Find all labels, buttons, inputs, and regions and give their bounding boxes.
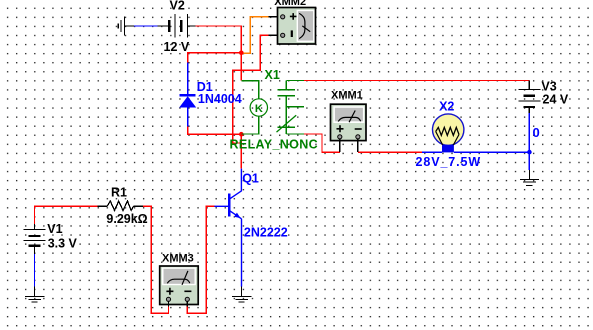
multimeter XMM1 [331, 104, 367, 152]
wire lamp to node 0 blue [454, 151, 530, 153]
wire D1 bottom to junction B [188, 127, 242, 135]
svg-text:12 V: 12 V [164, 40, 190, 54]
pin stub XMM2 minus [268, 34, 280, 36]
wire XMM2 minus to collector node [233, 35, 269, 143]
ground G2 (V1) [25, 287, 45, 302]
svg-text:24 V: 24 V [543, 93, 569, 107]
svg-text:RELAY_NONC: RELAY_NONC [230, 137, 318, 151]
junction node A [239, 51, 244, 56]
svg-text:2N2222: 2N2222 [244, 225, 288, 239]
ground G1 (left of V2) [118, 17, 134, 36]
wire XMM3 minus to Q1 base [187, 206, 214, 313]
diode D1 [179, 62, 196, 126]
svg-text:K: K [255, 103, 263, 115]
svg-text:XMM3: XMM3 [162, 253, 194, 265]
svg-text:V2: V2 [170, 0, 185, 13]
svg-text:28V_7.5W: 28V_7.5W [416, 155, 482, 169]
wire V1 plus to R1 [35, 206, 98, 224]
transistor Q1 emitter arrow [234, 213, 240, 219]
battery V2 [157, 14, 195, 38]
svg-text:R1: R1 [111, 185, 127, 199]
svg-text:XMM2: XMM2 [274, 0, 306, 8]
ground G4 (V3) [520, 170, 539, 185]
transistor Q1 [214, 169, 241, 287]
wire V2 plus to junction [195, 26, 241, 53]
svg-text:XMM1: XMM1 [331, 90, 363, 102]
wire V3 bottom to ground blue [528, 113, 530, 170]
wire junction down to coil top [240, 53, 242, 81]
wire relay bottom to XMM1 plus [304, 134, 340, 152]
relay X1 coil [241, 81, 267, 134]
pin stub XMM2 plus [268, 16, 280, 18]
resistor R1 [98, 201, 144, 210]
svg-text:0: 0 [533, 125, 540, 140]
wire orange junction to XMM2 plus [242, 17, 268, 53]
wire lamp left segment blue [422, 151, 442, 153]
battery V3 [518, 81, 540, 114]
svg-text:1N4004: 1N4004 [198, 92, 242, 106]
wire R1 to XMM3 plus [143, 206, 168, 313]
multimeter XMM3 [160, 266, 199, 307]
wire relay top to V3 [304, 80, 529, 82]
ground G3 (Q1) [232, 287, 252, 302]
junction node B [239, 132, 244, 137]
battery V1 [23, 224, 45, 254]
svg-text:Q1: Q1 [242, 172, 259, 186]
svg-text:3.3 V: 3.3 V [48, 237, 78, 251]
wire XMM1 minus to lamp [358, 151, 422, 153]
wire V2 minus blue [134, 25, 157, 27]
svg-text:X1: X1 [265, 68, 280, 82]
svg-text:V3: V3 [541, 80, 556, 94]
lamp X2 [433, 114, 464, 153]
svg-text:V1: V1 [47, 222, 62, 236]
junction node 0 [527, 150, 532, 155]
svg-text:9.29kΩ: 9.29kΩ [106, 212, 147, 226]
relay X1 contacts [277, 81, 305, 134]
multimeter XMM2 [278, 8, 316, 45]
svg-text:X2: X2 [439, 100, 454, 114]
wire V1 bottom blue [34, 254, 36, 286]
wire junction B down to Q1 collector [240, 134, 242, 168]
wire junction to D1 top [188, 53, 242, 63]
